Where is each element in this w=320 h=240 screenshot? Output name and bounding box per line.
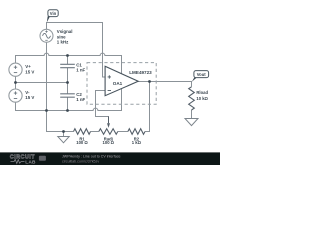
svg-text:1 kΩ: 1 kΩ — [132, 140, 142, 145]
wire capacitor chain x=67 — [67, 56, 69, 111]
capacitor C1 plates — [60, 64, 75, 67]
resistor Rload vertical zigzag — [189, 87, 195, 110]
svg-text:Rload: Rload — [196, 90, 208, 95]
Vsignal sine glyph — [43, 33, 51, 38]
svg-text:1 nF: 1 nF — [76, 68, 85, 73]
wire mid rail y=82.5 — [16, 76, 68, 89]
svg-text:circuitlab.com/c/37k5zv: circuitlab.com/c/37k5zv — [62, 159, 99, 163]
junction node dots — [66, 54, 69, 57]
source Vsignal circle — [40, 29, 53, 42]
wire top signal: source top to Vin corner, right, down to +input — [47, 23, 106, 78]
op-amp plus symbol — [108, 75, 111, 78]
svg-text:Vin: Vin — [50, 11, 57, 16]
resistor R1 zigzag — [74, 129, 91, 135]
ground lower-left — [58, 137, 69, 143]
capacitor C2 plates — [60, 94, 75, 97]
wire lower resistor row joins — [91, 131, 128, 133]
source V- circle — [9, 89, 22, 102]
svg-text:15 V: 15 V — [25, 95, 34, 100]
ground at Rload — [185, 119, 198, 126]
footer bar — [0, 152, 220, 165]
resistor Radj zigzag (pot) — [99, 129, 118, 135]
svg-text:100 Ω: 100 Ω — [76, 140, 88, 145]
V+ plus — [14, 66, 17, 69]
svg-text:LAB: LAB — [25, 160, 36, 165]
svg-text:10 kΩ: 10 kΩ — [196, 96, 208, 101]
dashed box LME49723 — [87, 63, 156, 105]
svg-text:100 Ω: 100 Ω — [103, 140, 115, 145]
resistor R2 zigzag — [128, 129, 145, 135]
svg-text:JWPHendy : Line out to CV inte: JWPHendy : Line out to CV interface — [62, 154, 121, 158]
V+ minus — [14, 72, 17, 74]
source V+ circle — [9, 63, 22, 76]
wire Rload bottom to ground — [191, 110, 193, 119]
V- minus — [14, 98, 17, 100]
svg-text:LME49723: LME49723 — [129, 70, 152, 75]
svg-text:15 V: 15 V — [25, 69, 34, 74]
svg-text:OA1: OA1 — [113, 81, 123, 86]
wire AC source bottom down to lower rail — [47, 42, 74, 131]
V- plus — [14, 91, 17, 94]
wire ground stub lower-left — [63, 132, 65, 137]
Vsignal minus — [45, 39, 47, 41]
wire output to Vout corner and down — [138, 82, 191, 87]
wire bottom rail y=110 with hop over x=95.5 — [16, 88, 122, 110]
svg-text:Vout: Vout — [197, 72, 207, 77]
wire V+ bus y=55.7 with hops over x=46.6 and x=102.8 — [16, 53, 122, 74]
op-amp OA1 triangle — [105, 66, 138, 95]
wire feedback drop from output to R2 — [145, 82, 150, 132]
Vsignal plus — [45, 30, 47, 32]
svg-text:CIRCUIT: CIRCUIT — [10, 154, 35, 160]
op-amp minus symbol — [108, 90, 111, 92]
Radj wiper arrow — [108, 117, 110, 124]
wire -input feedback loop to wiper — [96, 91, 109, 123]
node flag Vout — [192, 77, 197, 81]
svg-text:1 kHz: 1 kHz — [57, 39, 69, 44]
svg-text:1 nF: 1 nF — [76, 97, 85, 102]
node flag Vin — [47, 16, 50, 22]
